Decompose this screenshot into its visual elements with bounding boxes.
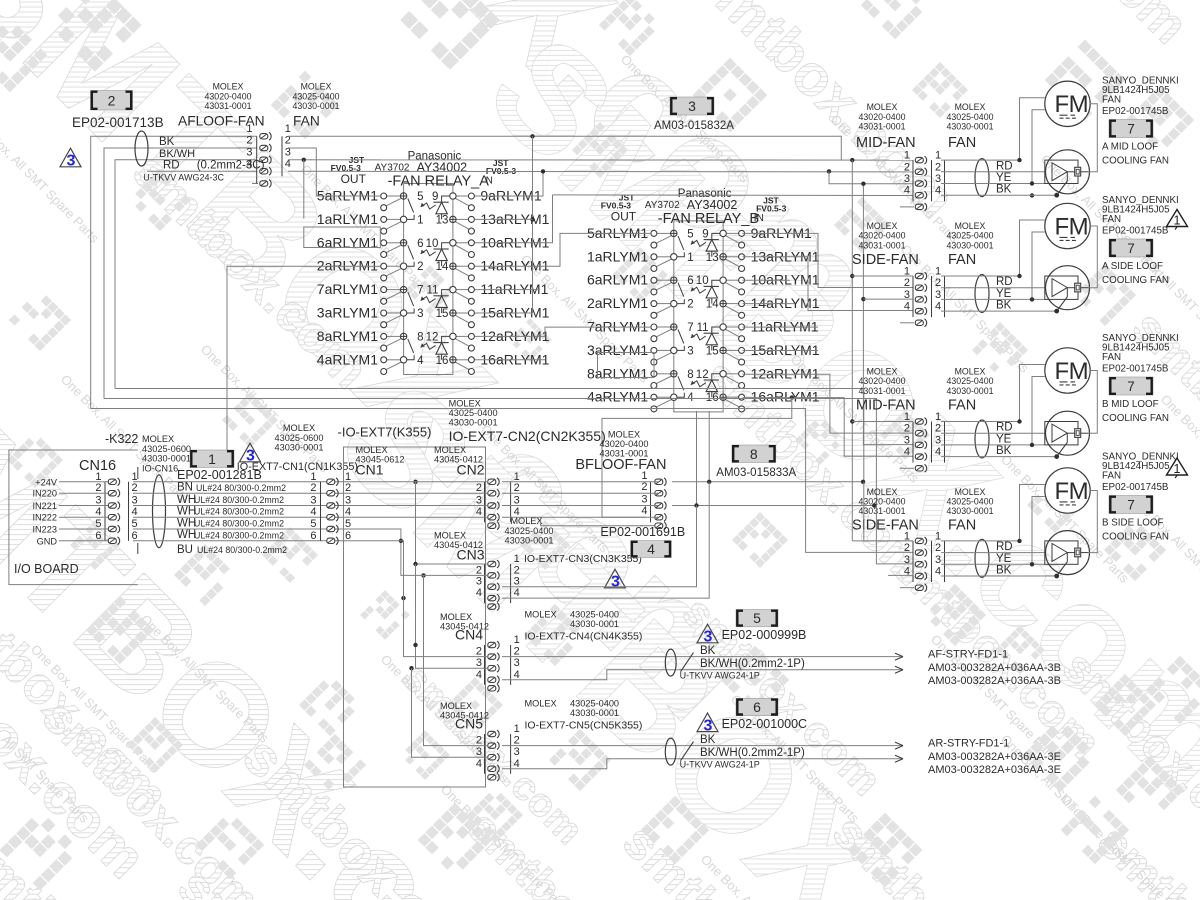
wire bus pin1 to fans (y136.3) bbox=[288, 136, 841, 160]
svg-text:2: 2 bbox=[310, 482, 316, 494]
routing box around 6aRLYM label (relay A) bbox=[304, 227, 381, 248]
fan 1 tag 7 reference box bbox=[1109, 120, 1153, 138]
svg-text:11aRLYM1: 11aRLYM1 bbox=[751, 319, 819, 335]
relay UB diode pair 10/14 bbox=[704, 280, 720, 303]
svg-text:BK: BK bbox=[700, 734, 716, 746]
fan 4 wire YE bbox=[941, 563, 1045, 565]
svg-text:3: 3 bbox=[704, 629, 713, 646]
fan 3 wire YE branch to FM bbox=[1032, 377, 1045, 445]
junction relay B 16a row bbox=[790, 395, 794, 399]
fan 3 cable oval bbox=[975, 420, 989, 458]
svg-text:4: 4 bbox=[904, 185, 910, 197]
svg-text:BFLOOF-FAN: BFLOOF-FAN bbox=[575, 457, 666, 473]
wire fan1 BK row bbox=[553, 194, 914, 197]
fan 2 wire RD bbox=[941, 287, 1045, 289]
fan 3 wire pin1 to FM bbox=[941, 365, 1045, 422]
relay UA right contact pin 13 (13aRLYM1) bbox=[436, 214, 475, 234]
fan 3 motor FM bbox=[1045, 348, 1090, 393]
svg-text:7aRLYM1: 7aRLYM1 bbox=[317, 281, 378, 297]
note triangle 3 (CN3) bbox=[605, 569, 626, 588]
fan 3 wire BK bbox=[941, 456, 1057, 458]
relay UB right contact pin 15 (15aRLYM1) bbox=[706, 345, 745, 365]
relay UA right contact pin 10 (10aRLYM1) bbox=[426, 238, 475, 258]
svg-text:1aRLYM1: 1aRLYM1 bbox=[587, 248, 648, 264]
svg-text:3: 3 bbox=[935, 289, 941, 301]
svg-text:6: 6 bbox=[417, 238, 423, 250]
junction CN3 pin2 feed bbox=[421, 573, 425, 577]
tag 6 reference box bbox=[736, 698, 778, 715]
svg-text:3: 3 bbox=[514, 576, 520, 588]
wire bus y408.5 (RD) to fan4 RD row bbox=[91, 409, 913, 553]
svg-text:2aRLYM1: 2aRLYM1 bbox=[587, 295, 648, 311]
svg-text:43030-0001: 43030-0001 bbox=[293, 101, 340, 111]
relay UA left contact pin 4 (4aRLYM1) bbox=[381, 355, 424, 375]
svg-text:43020-0400: 43020-0400 bbox=[859, 231, 906, 241]
svg-text:2: 2 bbox=[904, 542, 910, 554]
junction fan2 row1 bbox=[850, 274, 854, 278]
relay UB diode pair 9/13 bbox=[704, 233, 720, 256]
fan 1 sensor detector box bbox=[1075, 167, 1081, 176]
svg-text:2: 2 bbox=[108, 92, 116, 108]
fan 1 wire FM right loop to sensor bbox=[1089, 104, 1098, 172]
svg-text:BU: BU bbox=[177, 544, 193, 556]
svg-text:43020-0400: 43020-0400 bbox=[859, 376, 906, 386]
svg-text:MOLEX: MOLEX bbox=[434, 445, 466, 455]
wire vertical x532.5 to relay A pins 13/15 bbox=[532, 136, 534, 313]
svg-text:3: 3 bbox=[688, 98, 696, 114]
wire vertical x303.75 feeding relay A row 1a/6a routing box bbox=[303, 160, 305, 219]
svg-text:(0.2mm2-3C): (0.2mm2-3C) bbox=[197, 160, 265, 172]
svg-text:43025-0400: 43025-0400 bbox=[449, 408, 498, 418]
svg-text:7: 7 bbox=[1127, 497, 1135, 512]
fan 1 cable oval bbox=[975, 159, 989, 197]
svg-text:6: 6 bbox=[753, 699, 761, 715]
fan 4 sensor phototransistor triangle bbox=[1052, 544, 1067, 562]
relay UA diode pair 9/13 bbox=[433, 196, 449, 219]
fan 4 wire YE branch to FM bbox=[1032, 497, 1045, 565]
relay UB left contact pin 5 (5aRLYM1) bbox=[651, 228, 694, 250]
svg-text:CN5: CN5 bbox=[455, 716, 483, 732]
svg-text:MOLEX: MOLEX bbox=[955, 102, 986, 112]
relay UA diode pair 12/16 bbox=[433, 336, 449, 359]
svg-text:EP02-001000C: EP02-001000C bbox=[722, 717, 807, 731]
relay UB right contact pin 12 (12aRLYM1) bbox=[696, 369, 745, 389]
fan 1 sensor emitter lead with dot bbox=[1057, 181, 1068, 195]
svg-text:3: 3 bbox=[246, 146, 252, 158]
svg-text:7: 7 bbox=[417, 285, 423, 297]
relay UB diode pair 11/15 bbox=[704, 327, 720, 350]
wire relay B 14a stub bbox=[743, 303, 796, 305]
wire BU CN16 pin6 to CN1 bbox=[133, 540, 341, 542]
fan 1 sensor inner box bbox=[1045, 160, 1078, 183]
svg-text:9: 9 bbox=[432, 191, 438, 203]
junction x415.5 at CN3 pin1 bbox=[413, 562, 417, 566]
fan 4 warning triangle 1 bbox=[1167, 458, 1188, 475]
wire BK/WH output (tag 5) bbox=[502, 670, 903, 680]
svg-text:3: 3 bbox=[641, 494, 647, 506]
svg-text:2: 2 bbox=[246, 135, 252, 147]
svg-text:6aRLYM1: 6aRLYM1 bbox=[587, 272, 648, 288]
fan 1 junction YE branch bbox=[1030, 181, 1034, 185]
svg-text:3: 3 bbox=[935, 173, 941, 185]
wire fan4 BK stub bbox=[888, 574, 913, 576]
svg-text:1: 1 bbox=[641, 470, 647, 482]
I/O BOARD box bbox=[9, 450, 138, 585]
svg-text:43025-0600: 43025-0600 bbox=[142, 444, 191, 454]
note triangle 3 (CN1) bbox=[240, 443, 261, 462]
svg-text:B MID LOOF: B MID LOOF bbox=[1102, 399, 1159, 410]
svg-text:GND: GND bbox=[37, 536, 58, 546]
svg-text:MOLEX: MOLEX bbox=[449, 399, 481, 409]
relay UB left contact pin 7 (7aRLYM1) bbox=[651, 322, 694, 344]
fan 4 cable oval bbox=[975, 539, 989, 577]
svg-text:43025-0400: 43025-0400 bbox=[505, 526, 554, 536]
wire fan4 pin1 from bus x852.3 bbox=[852, 540, 913, 542]
svg-text:43031-0001: 43031-0001 bbox=[859, 506, 906, 516]
svg-text:1aRLYM1: 1aRLYM1 bbox=[317, 211, 378, 227]
svg-text:MOLEX: MOLEX bbox=[955, 367, 986, 377]
svg-text:4: 4 bbox=[95, 506, 101, 518]
wire vertical x415.5 down to CN4 pin3 bbox=[416, 564, 489, 668]
wire relay B bottom stub to BFLOOF pin3 vertical bbox=[696, 411, 698, 506]
svg-text:43030-0001: 43030-0001 bbox=[947, 386, 994, 396]
wire WH CN16 pin3 to CN1 bbox=[133, 505, 341, 507]
tag 1 reference box bbox=[190, 450, 234, 468]
fan 3 tag 7 reference box bbox=[1109, 377, 1153, 395]
svg-text:43030-0001: 43030-0001 bbox=[449, 418, 498, 428]
svg-text:8: 8 bbox=[687, 369, 693, 381]
svg-text:FV0.5-3: FV0.5-3 bbox=[756, 203, 787, 213]
svg-text:IN223: IN223 bbox=[32, 525, 57, 535]
svg-text:2: 2 bbox=[904, 161, 910, 173]
fan 2 sensor inner box bbox=[1045, 276, 1078, 299]
svg-text:6: 6 bbox=[95, 530, 101, 542]
wire CN1 pin5 to CN3 pin2 bbox=[341, 529, 488, 575]
svg-text:FAN: FAN bbox=[1102, 95, 1121, 106]
svg-text:IN221: IN221 bbox=[32, 501, 57, 511]
arrow head BK (tag 5) bbox=[895, 653, 903, 660]
svg-text:AM03-015832A: AM03-015832A bbox=[654, 120, 734, 132]
junction fan1 BK branch to FM bbox=[1030, 193, 1034, 197]
fan 2 junction YE branch bbox=[1030, 297, 1034, 301]
svg-text:CN3: CN3 bbox=[457, 547, 485, 563]
junction fan1 YE bbox=[861, 182, 865, 186]
svg-text:UL#24 80/300-0.2mm2: UL#24 80/300-0.2mm2 bbox=[194, 519, 284, 529]
svg-text:4: 4 bbox=[935, 301, 941, 313]
svg-text:3: 3 bbox=[514, 657, 520, 669]
fan 4 sensor inner box bbox=[1045, 541, 1078, 564]
relay UA actuation arrow pair 8/4 bbox=[421, 343, 436, 349]
svg-text:4aRLYM1: 4aRLYM1 bbox=[317, 351, 378, 367]
fan 2 sensor phototransistor triangle bbox=[1052, 279, 1067, 297]
svg-text:AY3702: AY3702 bbox=[645, 200, 680, 211]
junction x829 on RD bus bbox=[827, 169, 831, 173]
svg-text:43020-0400: 43020-0400 bbox=[859, 112, 906, 122]
svg-text:MOLEX: MOLEX bbox=[525, 610, 557, 620]
wire BK/WH output (tag 6) bbox=[502, 759, 903, 769]
svg-text:3: 3 bbox=[611, 574, 620, 591]
svg-text:2: 2 bbox=[345, 482, 351, 494]
junction x415.5 at CN4 pin1 crossing bbox=[413, 643, 417, 647]
fan 4 wire RD bbox=[941, 552, 1045, 554]
fan 1 speed sensor circle bbox=[1046, 150, 1090, 194]
svg-text:10: 10 bbox=[426, 238, 439, 250]
svg-text:1: 1 bbox=[310, 471, 316, 483]
fan 2 tag 7 reference box bbox=[1109, 239, 1153, 257]
svg-text:AM03-015833A: AM03-015833A bbox=[716, 467, 796, 479]
svg-text:2: 2 bbox=[476, 735, 482, 747]
svg-text:RD: RD bbox=[996, 160, 1013, 172]
wire relay A 2a input from below bbox=[227, 266, 381, 450]
relay UB left contact pin 4 (4aRLYM1) bbox=[651, 392, 694, 412]
connector CN2 pins bbox=[484, 482, 486, 522]
svg-text:U-TKVV AWG24-3C: U-TKVV AWG24-3C bbox=[143, 173, 224, 183]
tag 3 reference box bbox=[670, 97, 714, 115]
fan 2 wire YE bbox=[941, 298, 1045, 300]
note triangle 3 (tag 5) bbox=[697, 624, 718, 643]
svg-text:1: 1 bbox=[687, 252, 693, 264]
svg-text:U-TKVV AWG24-1P: U-TKVV AWG24-1P bbox=[680, 671, 760, 681]
svg-text:4: 4 bbox=[476, 587, 482, 599]
svg-text:COOLING FAN: COOLING FAN bbox=[1102, 532, 1169, 543]
relay UB actuation arrow pair 6/2 bbox=[691, 287, 706, 293]
relay UA right contact pin 11 (11aRLYM1) bbox=[426, 285, 474, 305]
wire RD pin4 left stub bbox=[147, 170, 257, 172]
svg-text:EP02-001281B: EP02-001281B bbox=[177, 468, 262, 482]
svg-text:AY34002: AY34002 bbox=[687, 198, 738, 212]
svg-text:6: 6 bbox=[132, 530, 138, 542]
wire WH CN16 pin5 to CN1 bbox=[133, 528, 341, 530]
relay UB right contact pin 11 (11aRLYM1) bbox=[697, 322, 745, 342]
svg-text:YE: YE bbox=[996, 433, 1012, 445]
wire BK output (tag 6) bbox=[502, 745, 903, 747]
svg-text:AM03-003282A+036AA-3E: AM03-003282A+036AA-3E bbox=[928, 764, 1061, 776]
wire relay A 16a row stub bbox=[475, 359, 545, 361]
svg-text:4: 4 bbox=[641, 505, 647, 517]
svg-text:16aRLYM1: 16aRLYM1 bbox=[751, 389, 820, 405]
junction x403.5 at CN3 pin4 crossing bbox=[401, 596, 405, 600]
svg-text:12: 12 bbox=[426, 331, 439, 343]
wire vertical x829 to fan1 YE row bbox=[829, 171, 913, 183]
svg-text:FM: FM bbox=[1055, 213, 1089, 240]
svg-text:3: 3 bbox=[310, 495, 316, 507]
svg-text:EP02-001745B: EP02-001745B bbox=[1102, 226, 1169, 237]
fan 4 extra contact below pin4 bbox=[915, 584, 926, 592]
fan 4 tag 7 reference box bbox=[1109, 496, 1153, 514]
svg-text:FM: FM bbox=[1055, 358, 1089, 385]
relay UA right contact pin 16 (16aRLYM1) bbox=[436, 355, 475, 375]
wire relay A 9a output to RD bus bbox=[475, 171, 543, 196]
relay UA -FAN RELAY_A body bbox=[404, 184, 453, 375]
fan 3 sensor phototransistor triangle bbox=[1052, 424, 1067, 442]
svg-text:43030-0001: 43030-0001 bbox=[274, 443, 323, 453]
relay UB actuation arrow pair 8/4 bbox=[691, 381, 706, 387]
svg-text:8: 8 bbox=[750, 446, 758, 462]
svg-text:MOLEX: MOLEX bbox=[867, 367, 898, 377]
connector CN5 pins bbox=[484, 734, 486, 774]
svg-text:1: 1 bbox=[935, 411, 941, 423]
relay UA left contact pin 7 (7aRLYM1) bbox=[381, 285, 424, 307]
svg-text:3: 3 bbox=[476, 746, 482, 758]
svg-text:43030-0001: 43030-0001 bbox=[570, 708, 619, 718]
relay UA left contact pin 6 (6aRLYM1) bbox=[381, 238, 424, 259]
svg-text:BK/WH(0.2mm2-1P): BK/WH(0.2mm2-1P) bbox=[700, 658, 805, 670]
svg-text:FAN: FAN bbox=[1102, 352, 1121, 363]
svg-text:3: 3 bbox=[345, 495, 351, 507]
wire vertical x415.5 to CN3 pin1 bbox=[416, 482, 489, 564]
svg-text:2: 2 bbox=[514, 564, 520, 576]
fan 3 junction YE branch bbox=[1030, 443, 1034, 447]
relay UA right contact pin 9 (9aRLYM1) bbox=[432, 191, 474, 211]
fan 4 wire pin1 to FM bbox=[941, 485, 1045, 541]
wire x876.4 down to fan4 pin3 bbox=[876, 506, 913, 564]
svg-text:43031-0001: 43031-0001 bbox=[205, 101, 252, 111]
svg-text:5: 5 bbox=[132, 518, 138, 530]
svg-text:3aRLYM1: 3aRLYM1 bbox=[587, 342, 648, 358]
svg-text:CN2: CN2 bbox=[457, 462, 485, 478]
fan 2 motor FM bbox=[1045, 203, 1090, 248]
svg-text:3: 3 bbox=[935, 554, 941, 566]
svg-text:4: 4 bbox=[310, 506, 316, 518]
fan 3 wire FM right loop to sensor bbox=[1089, 371, 1098, 434]
wire bus y388.5 (BK) to fan4 area bbox=[115, 389, 864, 482]
svg-text:EP02-001713B: EP02-001713B bbox=[72, 115, 164, 130]
svg-text:4: 4 bbox=[935, 566, 941, 578]
cable grouping oval (AFLOOF-FAN) bbox=[135, 131, 148, 166]
svg-text:15aRLYM1: 15aRLYM1 bbox=[751, 342, 820, 358]
relay UA actuation arrow pair 7/3 bbox=[421, 297, 436, 303]
svg-text:1: 1 bbox=[514, 634, 520, 646]
relay UB diode pair 12/16 bbox=[704, 374, 720, 397]
relay UB right contact pin 9 (9aRLYM1) bbox=[702, 228, 744, 248]
svg-text:43025-0400: 43025-0400 bbox=[570, 610, 619, 620]
svg-text:BK: BK bbox=[996, 565, 1012, 577]
svg-text:MOLEX: MOLEX bbox=[955, 221, 986, 231]
svg-text:43025-0400: 43025-0400 bbox=[293, 92, 340, 102]
svg-text:43025-0600: 43025-0600 bbox=[274, 433, 323, 443]
fan 2 wire YE branch to FM bbox=[1032, 232, 1045, 299]
svg-text:1: 1 bbox=[514, 723, 520, 735]
svg-text:1: 1 bbox=[904, 150, 910, 162]
svg-text:8aRLYM1: 8aRLYM1 bbox=[317, 328, 378, 344]
svg-text:FAN: FAN bbox=[948, 135, 976, 151]
svg-text:4: 4 bbox=[417, 355, 424, 367]
svg-text:MOLEX: MOLEX bbox=[525, 699, 557, 709]
contact below BFLOOF pin4 bbox=[655, 522, 666, 530]
relay UA diode pair 10/14 bbox=[433, 243, 449, 266]
svg-text:3: 3 bbox=[417, 308, 423, 320]
wire fan3 pin1 stub bbox=[852, 421, 913, 423]
tag 5 reference box bbox=[736, 610, 778, 627]
svg-text:-FAN RELAY_B: -FAN RELAY_B bbox=[658, 211, 759, 227]
wire BK pin2 left bbox=[104, 148, 257, 399]
relay UA right contact pin 12 (12aRLYM1) bbox=[426, 331, 475, 351]
relay UB -FAN RELAY_B body bbox=[674, 221, 723, 412]
svg-text:-K322: -K322 bbox=[105, 432, 138, 446]
fan 3 wire RD bbox=[941, 432, 1045, 434]
junction x303.75 on y159.8 bbox=[302, 158, 306, 162]
fan 4 motor FM bbox=[1045, 468, 1090, 513]
svg-text:YE: YE bbox=[996, 553, 1012, 565]
wire TLC pin2 to relay A 5a input bbox=[288, 148, 381, 196]
wire x863.8 down to fan4 pin1 bbox=[864, 482, 913, 541]
svg-text:IO-EXT7-CN2(CN2K355): IO-EXT7-CN2(CN2K355) bbox=[449, 428, 606, 444]
wire 13aRLYM1 row to vertical bbox=[475, 218, 533, 220]
svg-text:2: 2 bbox=[417, 261, 423, 273]
connector CN3 pins bbox=[484, 564, 486, 603]
wire relay B 10a stub bbox=[743, 279, 791, 281]
wire CN2 pin2 to BFLOOF pin2 bbox=[502, 492, 658, 494]
svg-text:UL#24 80/300-0.2mm2: UL#24 80/300-0.2mm2 bbox=[197, 545, 287, 555]
wire BN CN16 pin1 to CN1 bbox=[133, 481, 341, 483]
svg-text:MOLEX: MOLEX bbox=[608, 430, 640, 440]
svg-text:IO-CN16: IO-CN16 bbox=[142, 464, 178, 474]
svg-text:2: 2 bbox=[132, 482, 138, 494]
fan 2 extra contact below pin4 bbox=[915, 319, 926, 327]
svg-text:4: 4 bbox=[647, 541, 655, 557]
wire fan2 pin1 stub bbox=[852, 275, 913, 277]
svg-text:I/O BOARD: I/O BOARD bbox=[14, 562, 79, 576]
wire bus pin3 (y159.8) to fan1 pin1 bbox=[288, 159, 913, 161]
wire vertical x411.5 down to CN5 pin3 bbox=[412, 668, 489, 757]
svg-text:2: 2 bbox=[935, 423, 941, 435]
svg-text:EP02-001691B: EP02-001691B bbox=[600, 525, 685, 539]
svg-text:4: 4 bbox=[345, 506, 351, 518]
svg-text:BK/WH: BK/WH bbox=[159, 148, 195, 160]
fan 4 junction pin1 bbox=[1017, 539, 1021, 543]
svg-text:7: 7 bbox=[1127, 379, 1135, 394]
relay UB left contact pin 2 (2aRLYM1) bbox=[651, 299, 694, 319]
svg-text:UL#24 80/300-0.2mm2: UL#24 80/300-0.2mm2 bbox=[194, 507, 284, 517]
svg-text:2: 2 bbox=[687, 299, 693, 311]
svg-text:43025-0400: 43025-0400 bbox=[570, 699, 619, 709]
svg-text:MOLEX: MOLEX bbox=[440, 612, 472, 622]
svg-text:1: 1 bbox=[132, 471, 138, 483]
svg-text:43031-0001: 43031-0001 bbox=[859, 240, 906, 250]
svg-text:YE: YE bbox=[996, 288, 1012, 300]
svg-text:4: 4 bbox=[935, 446, 941, 458]
svg-text:MOLEX: MOLEX bbox=[434, 531, 466, 541]
svg-text:AM03-003282A+036AA-3E: AM03-003282A+036AA-3E bbox=[928, 751, 1061, 763]
relay UB left contact pin 6 (6aRLYM1) bbox=[651, 275, 694, 297]
junction CN4 pin3 feed bbox=[409, 666, 413, 670]
svg-text:4: 4 bbox=[904, 301, 910, 313]
svg-text:1: 1 bbox=[1174, 462, 1181, 476]
svg-text:5: 5 bbox=[687, 228, 693, 240]
svg-text:IN: IN bbox=[754, 213, 764, 224]
wire relay B 9a to fan2 RD bbox=[743, 233, 914, 287]
svg-text:6: 6 bbox=[687, 275, 693, 287]
relay UA diode pair 11/15 bbox=[433, 290, 449, 313]
fan 2 sensor emitter lead with dot bbox=[1057, 297, 1068, 311]
svg-text:OUT: OUT bbox=[611, 209, 637, 223]
fan 2 wire BK bbox=[941, 310, 1057, 312]
wire CN1 pin2-4 to CN2 pins2-4 bbox=[341, 492, 488, 494]
svg-text:YE: YE bbox=[996, 172, 1012, 184]
wire relay A 11a row stub bbox=[475, 289, 540, 291]
arrow head BK/WH (tag 5) bbox=[895, 666, 903, 673]
fan 1 sensor phototransistor triangle bbox=[1052, 163, 1067, 181]
junction on y136.3 bus at x532.5 bbox=[530, 134, 534, 138]
svg-text:2: 2 bbox=[904, 423, 910, 435]
svg-text:2: 2 bbox=[935, 542, 941, 554]
fan 4 sensor detector box bbox=[1075, 548, 1081, 557]
svg-text:EP02-001745B: EP02-001745B bbox=[1102, 106, 1169, 117]
wire relay B 11a stub bbox=[743, 350, 819, 352]
junction fan1 row1 bus split bbox=[850, 158, 854, 162]
svg-text:2: 2 bbox=[476, 564, 482, 576]
svg-text:AY34002: AY34002 bbox=[417, 161, 468, 175]
